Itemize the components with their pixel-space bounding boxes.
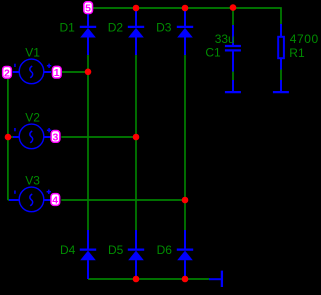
svg-text:V1: V1 — [25, 46, 40, 60]
node 2 badge — [3, 66, 12, 79]
node 3 badge — [51, 131, 60, 144]
wire node 1 row — [62, 71, 88, 73]
junction dot top rail at D3 — [182, 5, 189, 12]
V3 plus mark — [47, 190, 51, 194]
node 4 badge — [51, 194, 60, 207]
junction dot node 3 at D2 column — [133, 134, 140, 141]
node 1 badge — [52, 66, 61, 79]
source V2 — [13, 124, 51, 149]
junction dot bottom rail at D6 — [182, 276, 189, 283]
V3 minus tick — [14, 191, 16, 194]
junction dot node 1 at D1 column — [85, 69, 92, 76]
ground at bottom rail — [209, 271, 222, 287]
svg-text:33u: 33u — [215, 32, 235, 46]
wire column D1 to D4 — [87, 55, 89, 230]
node 5 badge — [84, 2, 93, 15]
diode D4 — [80, 230, 96, 279]
svg-text:C1: C1 — [205, 46, 221, 60]
svg-text:4700: 4700 — [290, 32, 319, 46]
svg-text:D2: D2 — [108, 21, 124, 35]
wire left rail node 2 down to V3 — [8, 79, 13, 200]
ground at C1 — [225, 80, 241, 92]
diode D2 — [128, 9, 144, 55]
svg-text:4: 4 — [52, 195, 58, 207]
wire C1 top stub — [232, 8, 234, 25]
svg-text:2: 2 — [4, 67, 10, 79]
svg-text:D5: D5 — [108, 243, 124, 257]
wire node 4 row — [61, 199, 185, 201]
junction dot left rail at V2 — [5, 134, 12, 141]
diode D3 — [177, 9, 193, 55]
wire V2 left stub — [8, 136, 13, 138]
diode D6 — [177, 230, 193, 279]
V2 plus mark — [47, 128, 51, 132]
diode D1 — [80, 14, 96, 55]
svg-text:1: 1 — [54, 67, 60, 79]
V2 minus tick — [14, 128, 16, 131]
svg-text:V3: V3 — [25, 174, 40, 188]
svg-text:D6: D6 — [157, 243, 173, 257]
svg-text:V2: V2 — [25, 111, 40, 125]
svg-text:D4: D4 — [60, 243, 76, 257]
ground at R1 — [273, 80, 289, 92]
svg-text:5: 5 — [85, 3, 91, 15]
svg-text:D1: D1 — [60, 21, 76, 35]
junction dot top rail at C1 — [230, 4, 237, 11]
diode D5 — [128, 230, 144, 279]
wire bottom rail — [88, 278, 210, 280]
svg-text:D3: D3 — [156, 21, 172, 35]
junction dot bottom rail at D5 — [133, 276, 140, 283]
source V1 — [13, 59, 52, 84]
wire column D3 to D6 — [184, 55, 186, 230]
wire column D2 to D5 — [135, 55, 137, 230]
junction dot top rail at D2 — [133, 5, 140, 12]
svg-text:3: 3 — [52, 131, 58, 143]
capacitor C1 — [225, 25, 241, 72]
svg-text:R1: R1 — [289, 46, 305, 60]
junction dot node 4 at D3 column — [182, 197, 189, 204]
V1 minus tick — [14, 64, 16, 67]
wire top rail node 5 to R1 corner — [93, 8, 281, 25]
wire R1 bottom segment — [280, 69, 282, 81]
wire C1 bottom segment — [232, 72, 234, 81]
V1 plus mark — [47, 64, 51, 68]
source V3 — [9, 187, 51, 212]
wire node 3 row — [61, 136, 136, 138]
resistor R1 — [278, 24, 284, 70]
